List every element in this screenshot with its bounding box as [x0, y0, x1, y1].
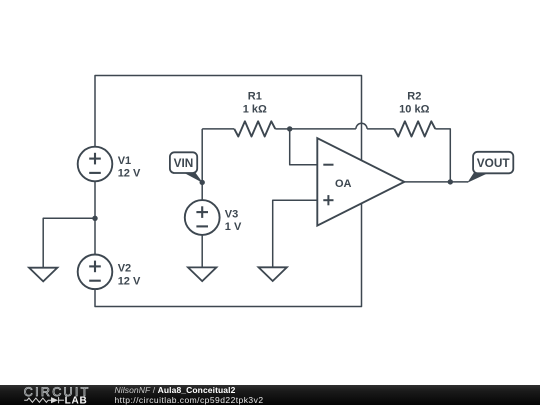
- wire top rail from V1 top to op-amp V+ column: [95, 76, 362, 161]
- op-amp OA: [317, 138, 404, 225]
- node junction dot VIN: [200, 180, 205, 185]
- wire R2 right lead down to output node: [435, 129, 450, 182]
- footer credit line 2: [115, 395, 264, 405]
- wire node A to hop: [290, 128, 356, 130]
- wire R1 left lead: [202, 128, 234, 130]
- svg-text:R1: R1: [248, 91, 262, 103]
- ground (non-inverting input): [259, 267, 287, 281]
- wire V2 bottom to bottom rail to op-amp V- column: [95, 203, 362, 306]
- wire non-inverting input to right ground: [273, 200, 317, 267]
- wire node A down to inverting input: [290, 129, 317, 165]
- svg-text:1 V: 1 V: [225, 221, 242, 233]
- svg-text:OA: OA: [335, 178, 352, 190]
- ground (left, mid-supply): [29, 268, 57, 282]
- node junction dot output: [448, 179, 453, 184]
- voltage source V3: [185, 200, 220, 235]
- flag VIN: [170, 152, 203, 183]
- label V1 12 V: [118, 155, 141, 180]
- label R1 1 kOhm: [243, 91, 267, 116]
- label V3 1 V: [225, 208, 242, 233]
- svg-text:R2: R2: [407, 91, 421, 103]
- node junction dot mid-supply: [92, 216, 97, 221]
- svg-text:V1: V1: [118, 155, 131, 167]
- wire V1 bottom to V2 top: [94, 181, 96, 254]
- wire hop over supply column: [356, 123, 367, 129]
- svg-text:10 kΩ: 10 kΩ: [399, 104, 429, 116]
- label R2 10 kOhm: [399, 91, 429, 116]
- ground (under V3): [188, 267, 216, 281]
- svg-text:VIN: VIN: [174, 156, 194, 170]
- svg-text:V3: V3: [225, 208, 238, 220]
- svg-text:LAB: LAB: [65, 395, 88, 405]
- footer bar: [0, 385, 540, 405]
- svg-text:1 kΩ: 1 kΩ: [243, 104, 267, 116]
- wire op-amp output to VOUT: [404, 181, 468, 183]
- resistor R2: [394, 121, 435, 136]
- flag VOUT: [467, 152, 513, 183]
- svg-text:12 V: 12 V: [118, 275, 141, 287]
- node junction dot A (R1/R2/inverting input): [287, 126, 292, 131]
- wire mid-supply to left ground: [43, 218, 95, 267]
- wire V3 bottom to middle ground: [201, 235, 203, 268]
- wire hop to R2: [367, 128, 394, 130]
- svg-text:12 V: 12 V: [118, 168, 141, 180]
- svg-text:VOUT: VOUT: [477, 156, 511, 170]
- voltage source V2: [78, 254, 113, 289]
- voltage source V1: [78, 147, 113, 182]
- CircuitLab logo resistor-diode line: [24, 397, 64, 403]
- wire VIN node column (R1 corner down to V3 top): [201, 129, 203, 200]
- label V2 12 V: [118, 263, 141, 288]
- resistor R1: [234, 121, 275, 136]
- svg-text:V2: V2: [118, 263, 131, 275]
- footer credit line 1: [115, 385, 236, 395]
- wire R1 right lead to node A: [275, 128, 289, 130]
